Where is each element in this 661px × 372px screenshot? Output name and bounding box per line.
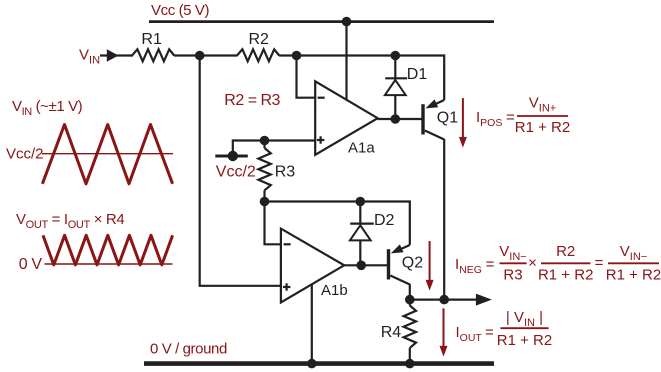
Vcc rail	[149, 20, 494, 23]
wire: input lead	[100, 54, 133, 56]
svg-text:0 V / ground: 0 V / ground	[150, 341, 227, 358]
wire: R1 to R2	[174, 54, 238, 56]
diode D2	[350, 202, 374, 266]
IOUT formula	[456, 309, 553, 349]
svg-text:A1b: A1b	[321, 282, 348, 299]
node D: A1a + / R3 top junction	[260, 136, 270, 146]
transistor Q1	[421, 99, 444, 139]
svg-text:INEG =: INEG =	[455, 256, 495, 276]
resistor R1	[132, 49, 174, 61]
svg-text:VIN: VIN	[79, 46, 100, 66]
node J: Q1 collector junction on output wire	[439, 295, 449, 305]
resistor R4	[404, 300, 416, 364]
svg-text:Vcc/2: Vcc/2	[6, 146, 44, 163]
node A: R1-R2 junction	[195, 51, 205, 61]
svg-text:R2: R2	[556, 243, 575, 260]
ground rail	[144, 361, 494, 366]
svg-text:Q2: Q2	[402, 255, 423, 272]
node G: D2 cathode junction	[356, 197, 366, 207]
node I: output node	[405, 295, 415, 305]
svg-text:VIN−: VIN−	[499, 243, 526, 263]
VIN waveform center line	[42, 153, 173, 155]
op-amp A1a	[315, 81, 378, 155]
svg-text:R2 = R3: R2 = R3	[224, 92, 280, 109]
wire: A1a output to Q1 base	[378, 118, 422, 120]
IOUT current arrow	[440, 308, 448, 356]
svg-text:A1a: A1a	[348, 140, 375, 157]
transistor Q2	[387, 244, 410, 284]
wire: feedback to A1a inverting input	[297, 56, 316, 98]
diode D1	[385, 56, 407, 120]
input arrowhead	[107, 49, 119, 61]
svg-text:| VIN |: | VIN |	[506, 309, 543, 329]
svg-text:IOUT =: IOUT =	[456, 324, 495, 344]
Vcc/2 terminal dot	[228, 151, 238, 161]
wire: R3 bottom rail to Q2 emitter	[265, 202, 410, 246]
IPOS formula	[476, 95, 570, 137]
wire: Q1 collector down	[443, 139, 445, 300]
op-amp A1b	[281, 229, 344, 303]
svg-text:VIN (~±1 V): VIN (~±1 V)	[12, 98, 83, 118]
svg-text:IPOS =: IPOS =	[476, 109, 515, 129]
INEG current arrow	[426, 241, 434, 291]
svg-text:R4: R4	[381, 324, 402, 341]
svg-text:R2: R2	[249, 31, 270, 48]
node B: feedback junction	[292, 51, 302, 61]
node E: A1a output / D1 anode	[391, 114, 401, 124]
wire: A1b supply pin to ground	[311, 284, 313, 363]
node: Vcc tap junction	[342, 17, 352, 27]
svg-text:Vcc (5 V): Vcc (5 V)	[151, 2, 209, 19]
IPOS current arrow	[459, 98, 467, 148]
VOUT waveform baseline	[45, 263, 173, 265]
VIN waveform (triangle wave)	[42, 125, 172, 184]
node L: R4 ground junction	[405, 359, 415, 369]
wire: Vcc tap down to A1a supply pin	[345, 22, 347, 100]
svg-text:R1: R1	[141, 31, 162, 48]
resistor R2	[237, 49, 279, 61]
svg-text:R1 + R2: R1 + R2	[515, 119, 570, 136]
resistor R3	[258, 141, 270, 202]
svg-text:D1: D1	[407, 66, 428, 83]
wire: main left vertical from node A to A1b noninverting input	[200, 56, 281, 286]
svg-text:VOUT = IOUT × R4: VOUT = IOUT × R4	[16, 211, 124, 231]
wire: node F down to A1b inverting input	[265, 202, 281, 245]
svg-text:R3: R3	[503, 267, 522, 284]
svg-text:D2: D2	[374, 212, 395, 229]
svg-text:R1 + R2: R1 + R2	[538, 267, 593, 284]
VOUT waveform (rectified triangle wave)	[43, 235, 173, 265]
node K: A1b ground junction	[307, 359, 317, 369]
wire: A1b output to Q2 base	[344, 264, 387, 266]
node F: R3 bottom junction	[260, 197, 270, 207]
wire: Vcc/2 branch	[233, 141, 265, 157]
svg-text:R3: R3	[275, 164, 296, 181]
wire: A1a noninverting input	[265, 139, 316, 141]
svg-text:×: ×	[528, 254, 537, 271]
svg-text:=: =	[595, 254, 604, 271]
svg-text:VIN−: VIN−	[620, 243, 647, 263]
node C: D1 top junction	[391, 51, 401, 61]
svg-text:VIN+: VIN+	[529, 95, 556, 115]
svg-text:R1 + R2: R1 + R2	[497, 332, 552, 349]
node H: A1b output / D2 anode	[356, 261, 366, 271]
wire: Q2 collector down to output node	[409, 284, 411, 300]
wire: output with arrowhead	[410, 299, 479, 301]
wire: R2 to Q1 emitter corner	[279, 56, 444, 101]
svg-text:R1 + R2: R1 + R2	[606, 267, 661, 284]
svg-text:0 V: 0 V	[19, 256, 43, 273]
INEG formula	[455, 243, 661, 284]
Vcc/2 terminal bar	[215, 155, 248, 158]
svg-text:Q1: Q1	[437, 110, 458, 127]
svg-text:Vcc/2: Vcc/2	[216, 163, 256, 180]
